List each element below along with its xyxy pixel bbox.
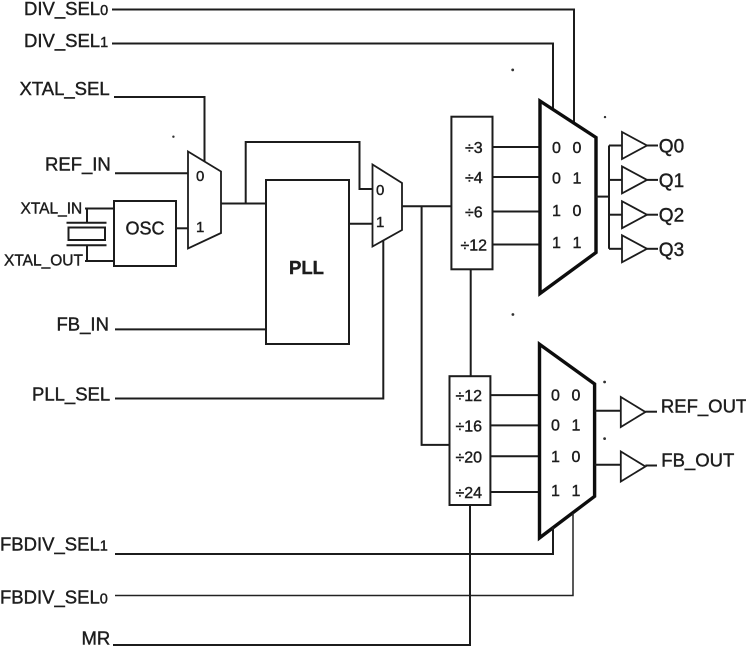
svg-text:XTAL_SEL: XTAL_SEL (20, 78, 110, 100)
buffer REF_OUT (621, 397, 646, 427)
wire buffer Q2 to pad (647, 214, 658, 216)
wire PLL_SEL to mux U2 select (115, 241, 383, 399)
artifact dot (603, 381, 606, 384)
crystal Y1 (67, 209, 107, 262)
svg-text:1: 1 (551, 483, 560, 500)
svg-text:0: 0 (552, 140, 561, 157)
wire FB_IN to PLL (115, 328, 266, 330)
wire DIV_SEL0 to upper mux select (112, 10, 574, 125)
wire divider /6 to mux U3 (493, 211, 539, 213)
wire FBDIV_SEL0 to mux U4 select (115, 513, 573, 596)
svg-text:0: 0 (376, 182, 384, 199)
wire stub to buffer Q2 (609, 214, 622, 216)
mux U1 (reference select) (188, 152, 221, 249)
wire buffer to FB_OUT pad (645, 465, 657, 467)
svg-text:0: 0 (573, 203, 582, 220)
wire divider /20 to mux U4 (490, 455, 539, 457)
wire mux U2 output to divider bank 1 (402, 205, 451, 207)
divider bank 1 (451, 117, 492, 270)
wire FBDIV_SEL1 to mux U4 select (115, 527, 553, 554)
wire mux U1 output to PLL (221, 203, 266, 205)
wire XTAL_IN to OSC (85, 208, 114, 210)
wire PLL bypass to mux U2 input 0 (246, 142, 373, 204)
svg-text:REF_OUT: REF_OUT (661, 396, 746, 418)
wire mux U4 to REF_OUT buffer (595, 410, 622, 412)
svg-text:1: 1 (573, 235, 582, 252)
PLL block (266, 180, 349, 344)
svg-text:0: 0 (572, 388, 581, 405)
wire divider bank 1 to divider bank 2 (470, 269, 472, 376)
svg-text:XTAL_OUT: XTAL_OUT (4, 253, 83, 270)
artifact dot (172, 136, 174, 138)
svg-text:FB_IN: FB_IN (57, 314, 109, 336)
svg-text:FBDIV_SEL0: FBDIV_SEL0 (0, 587, 108, 609)
buffer Q2 (622, 201, 647, 228)
svg-text:÷12: ÷12 (461, 238, 488, 255)
svg-text:1: 1 (552, 235, 561, 252)
buffer Q1 (622, 166, 647, 193)
wire PLL output to mux U2 input 1 (349, 223, 373, 225)
svg-text:÷24: ÷24 (456, 485, 483, 502)
svg-text:XTAL_IN: XTAL_IN (21, 201, 83, 218)
wire mux U4 to FB_OUT buffer (595, 464, 622, 466)
svg-text:0: 0 (196, 168, 204, 185)
svg-text:÷12: ÷12 (456, 388, 483, 405)
svg-text:FBDIV_SEL1: FBDIV_SEL1 (0, 534, 108, 556)
artifact dot (604, 116, 606, 118)
wire divider /12 to mux U3 (493, 244, 539, 246)
svg-text:PLL_SEL: PLL_SEL (32, 384, 110, 406)
svg-text:0: 0 (551, 388, 560, 405)
wire stub to buffer Q1 (609, 179, 622, 181)
buffer Q3 (622, 235, 647, 262)
wire divider /4 to mux U3 (493, 176, 539, 178)
OSC block (114, 201, 176, 266)
wire REF_IN to mux U1 input 0 (115, 172, 188, 174)
svg-text:FB_OUT: FB_OUT (661, 450, 734, 472)
wire divider /3 to mux U3 (493, 146, 539, 148)
svg-text:Q2: Q2 (659, 206, 684, 227)
wire OSC output to mux U1 input 1 (176, 227, 188, 229)
wire divider /12 to mux U4 (490, 394, 539, 396)
wire buffer Q0 to pad (647, 145, 658, 147)
artifact dot (512, 313, 515, 316)
divider bank 2 (450, 376, 491, 505)
svg-text:Q0: Q0 (659, 137, 684, 158)
wire output bus vertical (608, 146, 610, 249)
svg-text:0: 0 (573, 140, 582, 157)
wire DIV_SEL1 to upper mux select (112, 44, 553, 112)
svg-text:1: 1 (552, 203, 561, 220)
artifact dot (603, 437, 606, 440)
svg-text:0: 0 (551, 418, 560, 435)
svg-text:1: 1 (551, 449, 560, 466)
svg-text:÷20: ÷20 (456, 450, 483, 467)
svg-text:1: 1 (572, 483, 581, 500)
svg-text:÷6: ÷6 (465, 205, 483, 222)
wire divider /16 to mux U4 (490, 424, 539, 426)
svg-text:DIV_SEL0: DIV_SEL0 (24, 0, 108, 20)
svg-text:PLL: PLL (289, 257, 324, 278)
svg-text:Q3: Q3 (659, 240, 684, 261)
wire divider /24 to mux U4 (490, 491, 539, 493)
wire MR to divider bank 2 (113, 505, 470, 645)
wire XTAL_OUT to OSC (85, 260, 114, 262)
wire XTAL_SEL to mux U1 select (114, 97, 205, 162)
svg-text:REF_IN: REF_IN (45, 154, 111, 176)
mux U2 (PLL select) (373, 165, 403, 247)
svg-text:÷16: ÷16 (456, 419, 483, 436)
svg-text:1: 1 (376, 214, 384, 231)
buffer Q0 (622, 132, 647, 159)
wire mux U2 output to divider bank 2 (422, 206, 450, 445)
wire buffer Q1 to pad (647, 179, 658, 181)
mux U4 (feedback divider select) (540, 344, 595, 538)
wire buffer Q3 to pad (647, 248, 658, 250)
svg-text:0: 0 (572, 449, 581, 466)
svg-text:÷4: ÷4 (465, 170, 483, 187)
svg-text:MR: MR (82, 628, 111, 647)
svg-text:0: 0 (552, 171, 561, 188)
svg-text:OSC: OSC (126, 219, 165, 239)
svg-text:Q1: Q1 (659, 171, 684, 192)
wire stub to buffer Q0 (609, 145, 622, 147)
mux U3 (output divider select) (540, 101, 596, 294)
svg-text:1: 1 (573, 171, 582, 188)
wire stub to buffer Q3 (609, 248, 622, 250)
wire mux U3 output bus (596, 196, 609, 198)
svg-text:÷3: ÷3 (465, 140, 483, 157)
svg-text:1: 1 (196, 219, 204, 236)
buffer FB_OUT (621, 452, 646, 482)
artifact dot (511, 69, 514, 72)
svg-text:1: 1 (572, 418, 581, 435)
svg-text:DIV_SEL1: DIV_SEL1 (24, 30, 108, 52)
wire buffer to REF_OUT pad (645, 411, 657, 413)
